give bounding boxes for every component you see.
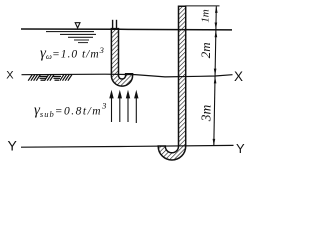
wire water hatch line 4 bbox=[74, 39, 89, 41]
svg-text:Y: Y bbox=[8, 138, 18, 154]
svg-text:2m: 2m bbox=[198, 42, 213, 58]
node left tube neck walls above water bbox=[112, 20, 114, 29]
component seepage arrows bbox=[110, 92, 138, 123]
svg-text:3m: 3m bbox=[198, 105, 213, 123]
wire dimension extension line at tube top bbox=[185, 5, 220, 7]
wire Y-Y section line bbox=[21, 145, 234, 147]
wire X-X section line bbox=[22, 74, 233, 77]
component left piezometer U-tube bbox=[111, 20, 132, 86]
wire water surface line bbox=[21, 28, 232, 31]
node water-surface triangle symbol bbox=[75, 23, 80, 28]
wire water hatch line 2 bbox=[60, 33, 96, 35]
wire water hatch line 1 bbox=[46, 31, 94, 33]
wire vertical dimension line bbox=[214, 6, 217, 146]
node dimension arrowheads bbox=[213, 6, 218, 146]
svg-text:1m: 1m bbox=[200, 9, 212, 23]
svg-text:X: X bbox=[6, 69, 14, 81]
svg-text:Y: Y bbox=[236, 141, 245, 156]
component right standpipe tube bbox=[158, 6, 186, 160]
wire water hatch line 3 bbox=[68, 36, 93, 38]
svg-text:X: X bbox=[234, 69, 243, 84]
node ground hatching on X line bbox=[28, 75, 72, 81]
wire water hatch line 5 bbox=[78, 42, 88, 44]
